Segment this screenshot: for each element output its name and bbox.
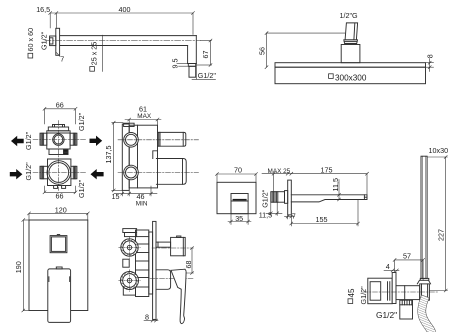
dim 9,5 — [179, 63, 188, 66]
svg-text:G1/2": G1/2" — [198, 71, 217, 80]
ball joint block — [341, 45, 360, 63]
svg-text:57: 57 — [403, 251, 411, 260]
svg-text:45: 45 — [347, 288, 356, 297]
head body — [275, 67, 426, 84]
shower hose — [422, 300, 432, 332]
svg-text:G1/2": G1/2" — [40, 31, 49, 50]
dim 137,5 — [112, 121, 123, 192]
svg-text:190: 190 — [14, 261, 23, 273]
centerline of arm — [45, 40, 201, 42]
arrow upper-left (out) — [11, 136, 24, 146]
centerline vertical — [58, 121, 60, 191]
svg-text:68: 68 — [184, 261, 193, 269]
lever handle side — [171, 269, 186, 323]
svg-text:8: 8 — [425, 54, 434, 58]
collar 9,5 — [188, 64, 195, 67]
label G1/2 vertical — [359, 286, 368, 305]
svg-text:8: 8 — [145, 312, 149, 321]
outlet tube outside — [396, 286, 420, 300]
svg-text:175: 175 — [321, 165, 333, 174]
svg-text:15: 15 — [112, 192, 120, 201]
svg-text:400: 400 — [119, 5, 131, 14]
dim 11,5 tip — [338, 180, 341, 202]
svg-text:7: 7 — [292, 211, 296, 220]
dim 70 — [216, 173, 258, 183]
valve body behind wall — [136, 230, 149, 297]
svg-text:155: 155 — [316, 215, 328, 224]
svg-text:G1/2": G1/2" — [261, 189, 270, 208]
svg-text:61: 61 — [139, 104, 147, 113]
elbow — [187, 46, 189, 64]
spout profile — [291, 195, 367, 202]
svg-text:66: 66 — [56, 192, 64, 201]
dim 67 — [196, 39, 212, 67]
svg-text:67: 67 — [201, 51, 210, 59]
connector stem — [345, 23, 358, 40]
outlet stub below — [400, 300, 413, 319]
dimension line 400/16,5 — [49, 12, 195, 35]
svg-text:G1/2": G1/2" — [24, 131, 33, 150]
svg-text:G1/2": G1/2" — [77, 179, 86, 198]
lower left pipe — [40, 166, 48, 179]
mid section — [49, 149, 68, 155]
centerline lower horizontal — [33, 172, 86, 174]
svg-text:11,5: 11,5 — [331, 178, 340, 191]
wall mounting plate — [122, 124, 129, 190]
svg-text:120: 120 — [55, 206, 67, 215]
svg-text:1/2"G: 1/2"G — [340, 11, 359, 20]
label 60x60 — [26, 28, 35, 52]
diverter knob — [171, 237, 186, 255]
svg-text:7: 7 — [60, 54, 64, 63]
plate — [29, 220, 88, 311]
svg-text:G1/2": G1/2" — [77, 112, 86, 131]
arrow upper-right (out) — [90, 136, 103, 146]
dim line MAX 25 / 175 — [262, 172, 369, 195]
svg-text:16,5: 16,5 — [36, 5, 50, 14]
svg-text:66: 66 — [56, 101, 64, 110]
upper outlet pipe — [158, 132, 186, 146]
upper cartridge circle (hatched) — [121, 239, 138, 256]
body block — [129, 125, 157, 188]
dim 7 — [285, 215, 295, 219]
bottom tabs — [54, 186, 58, 189]
outlet stub G1/2 — [189, 66, 196, 77]
label square 25x25 — [90, 42, 99, 66]
centerline lever axis — [150, 277, 194, 279]
centerline — [363, 291, 438, 293]
svg-text:11,5: 11,5 — [259, 210, 272, 219]
dim 8 — [426, 59, 434, 72]
dim 57 — [393, 258, 425, 280]
lever handle front — [48, 269, 71, 323]
svg-text:10x30: 10x30 — [429, 146, 449, 155]
svg-text:300x300: 300x300 — [335, 73, 367, 82]
in-wall union — [368, 278, 392, 304]
dims 15 and 46 MIN — [114, 186, 157, 196]
svg-text:9,5: 9,5 — [171, 59, 180, 69]
upper right pipe — [70, 133, 77, 145]
dim 11,5 bottom — [266, 202, 282, 215]
dim 66 top — [43, 107, 77, 124]
dim 56 — [265, 32, 345, 69]
svg-text:MIN: MIN — [136, 201, 148, 208]
svg-text:70: 70 — [234, 166, 242, 175]
centerline lower — [118, 172, 199, 174]
spout front view — [231, 194, 248, 214]
dim 68 — [176, 247, 194, 275]
threaded stub behind flange — [50, 36, 56, 46]
label G1/2 arm inlet — [40, 31, 49, 50]
dim 66 bottom — [43, 186, 77, 194]
upper cartridge circle — [124, 133, 139, 148]
wall panel — [392, 273, 396, 304]
diverter button — [50, 236, 67, 253]
dim 61 MAX — [125, 118, 161, 125]
hand shower rod — [421, 156, 427, 278]
escutcheon sleeve — [156, 270, 171, 290]
lower valve housing — [48, 159, 71, 186]
spout wall plate side — [288, 180, 292, 215]
dim 155 — [290, 200, 360, 227]
lower cylinder — [156, 159, 186, 185]
svg-text:60 x 60: 60 x 60 — [26, 28, 35, 52]
label G1/2 lower-left — [24, 162, 33, 181]
arrow lower-right (in) — [91, 169, 104, 179]
upper left pipe — [40, 133, 47, 145]
dim 35 — [228, 214, 251, 225]
upper valve circle — [53, 134, 64, 145]
G1/2 label spout inlet — [261, 189, 270, 208]
head top slab — [275, 63, 426, 67]
svg-text:35: 35 — [235, 214, 243, 223]
wall panel — [153, 221, 156, 319]
upper valve block — [47, 131, 70, 149]
nipple flange — [285, 191, 288, 204]
threaded nipple — [271, 192, 285, 203]
svg-text:G1/2": G1/2" — [359, 286, 368, 305]
dim 227 — [428, 156, 448, 293]
svg-text:G1/2": G1/2" — [376, 310, 397, 320]
cap on top of upper valve — [48, 127, 68, 131]
lower cartridge circle — [124, 165, 139, 180]
svg-text:227: 227 — [436, 229, 445, 241]
label G1/2 upper-left — [24, 131, 33, 150]
svg-text:25 x 25: 25 x 25 — [90, 42, 99, 66]
lower right pipe — [71, 166, 77, 179]
centerline upper — [118, 139, 199, 141]
svg-text:MAX 25: MAX 25 — [268, 168, 291, 175]
svg-text:MAX: MAX — [137, 113, 152, 120]
handle connection block — [420, 284, 430, 300]
arm tube — [60, 35, 196, 37]
svg-text:137,5: 137,5 — [104, 146, 113, 164]
lower cartridge circle (hatched) — [121, 272, 139, 290]
stem nut — [344, 40, 358, 44]
dim 120 — [28, 212, 90, 220]
label G1/2 lower-right — [77, 179, 86, 198]
label G1/2 upper-right — [77, 112, 86, 131]
step notch — [153, 151, 158, 159]
dim 190 — [22, 219, 29, 313]
centerline upper horizontal — [33, 139, 86, 141]
spout plate front — [217, 182, 256, 213]
svg-text:56: 56 — [257, 47, 266, 55]
diverter stem — [156, 242, 171, 247]
handle flare — [417, 280, 430, 284]
svg-text:G1/2": G1/2" — [24, 162, 33, 181]
lower valve circles — [47, 161, 71, 185]
label square 45 — [347, 288, 356, 297]
arrow lower-left (in) — [10, 169, 23, 179]
wall flange of arm — [56, 28, 60, 55]
dim 4 — [384, 269, 399, 272]
dim 8 (panel thickness) — [144, 319, 158, 322]
svg-text:4: 4 — [386, 262, 390, 271]
